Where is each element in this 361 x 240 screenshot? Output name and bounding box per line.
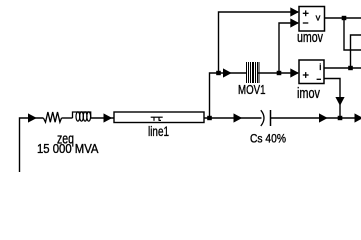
wire main bus left segment xyxy=(20,118,44,172)
wire branch up to umov minus input xyxy=(279,23,298,73)
wire branch up to umov plus input xyxy=(219,12,299,73)
wire imov i output xyxy=(324,67,361,69)
wire bus Cs to right edge xyxy=(271,117,358,119)
junction node MOV input branch xyxy=(216,71,221,75)
junction node MOV output branch xyxy=(277,71,282,75)
MOV1 varistor hatch xyxy=(246,62,260,83)
wire umov output branch down-right xyxy=(344,18,361,50)
wire MOV output to imov xyxy=(258,72,298,74)
junction node imov output xyxy=(348,66,353,70)
arrow on bus after source corner xyxy=(28,113,37,122)
resistor zeq zigzag xyxy=(43,112,61,122)
svg-text:line1: line1 xyxy=(148,124,169,139)
arrow into umov minus input xyxy=(290,18,299,27)
svg-text:Cs 40%: Cs 40% xyxy=(250,132,286,146)
wire bus inductor to line1 xyxy=(91,117,114,119)
arrow into imov plus input xyxy=(290,68,299,77)
arrow on bus before Cs xyxy=(234,113,243,122)
arrow into umov plus input xyxy=(290,7,299,16)
inductor zeq loop 4 xyxy=(87,112,91,121)
svg-text:umov: umov xyxy=(297,30,324,46)
svg-text:MOV1: MOV1 xyxy=(238,83,266,97)
umov minus sign xyxy=(303,22,309,24)
inductor zeq loop 1 xyxy=(76,112,80,121)
wire branch up from bus to MOV level xyxy=(210,73,219,118)
wire MOV input segment xyxy=(219,72,247,74)
svg-text:v: v xyxy=(316,12,321,23)
block umov xyxy=(299,7,325,32)
arrow into MOV1 xyxy=(223,68,232,77)
imov minus sign xyxy=(317,78,321,80)
capacitor Cs straight plate xyxy=(270,110,272,126)
wire umov output xyxy=(325,17,361,19)
junction node umov output xyxy=(342,16,347,20)
wire bus line1 to Cs xyxy=(204,117,262,119)
capacitor Cs curved plate xyxy=(261,110,264,126)
wire from right edge down to imov output node xyxy=(351,35,361,68)
wire bus between resistor and inductor xyxy=(62,117,73,119)
imov plus sign xyxy=(303,72,309,78)
svg-text:i: i xyxy=(319,62,321,73)
inductor zeq loop 2 xyxy=(80,112,84,121)
inductor zeq loop 3 xyxy=(83,112,87,121)
arrow down from imov minus to bus xyxy=(335,97,344,106)
umov plus sign xyxy=(303,10,309,16)
junction node on bus below MOV branch xyxy=(207,116,212,120)
line1 block xyxy=(114,112,204,123)
junction node bus under down arrow xyxy=(338,116,343,120)
arrow on bus after Cs xyxy=(319,113,328,122)
svg-text:imov: imov xyxy=(297,86,321,102)
svg-text:15 000 MVA: 15 000 MVA xyxy=(37,142,99,156)
inductor zeq bump xyxy=(73,112,92,118)
wire imov minus terminal back to bus xyxy=(324,79,340,119)
arrow on bus at right edge xyxy=(355,113,361,122)
line1 pi icon xyxy=(151,117,163,121)
block imov xyxy=(299,60,324,84)
arrow into line1 block xyxy=(104,113,113,122)
